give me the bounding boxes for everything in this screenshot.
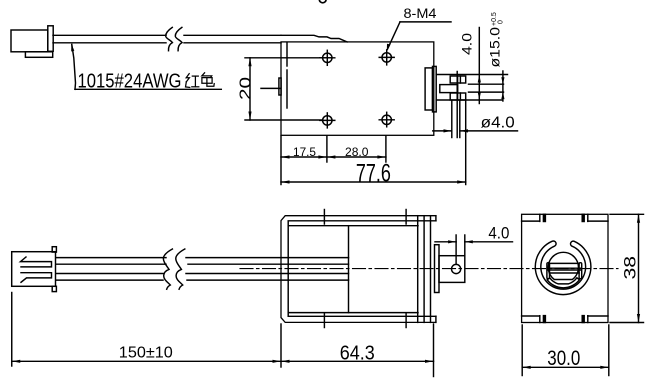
body centre tick: [261, 87, 280, 89]
wires (side view, right of break): [186, 258, 349, 281]
frame top plate right end: [435, 216, 437, 221]
dim 150±10 / 64.3: [12, 293, 434, 377]
svg-text:64.3: 64.3: [340, 343, 375, 365]
clevis upper prong: [450, 76, 466, 83]
hole H3 (bottom-left): [320, 113, 335, 128]
dim 4.0 (side view): [435, 224, 513, 264]
svg-text:17.5: 17.5: [293, 145, 316, 159]
inner circle with flat bottom (plunger face): [548, 252, 578, 279]
svg-text:1015#24AWG: 1015#24AWG: [78, 71, 182, 93]
slot extension lines right: [469, 84, 504, 92]
connector latch lower: [21, 273, 52, 283]
svg-text:77.6: 77.6: [356, 160, 391, 188]
dim 77.6: [281, 101, 466, 188]
dim 17.5 / 28.0: [281, 136, 386, 162]
svg-text:8-M4: 8-M4: [404, 5, 437, 21]
bobbin lines: [289, 216, 431, 323]
label 1015#24AWG red: [71, 44, 221, 93]
svg-text:20: 20: [238, 77, 255, 100]
dim 38: [610, 214, 644, 322]
plunger block (side view): [439, 256, 465, 283]
hole H1 (top-left): [320, 50, 335, 65]
bottom edge rabbet lines and notches: [522, 316, 608, 323]
slot end bar left: [547, 263, 550, 279]
connector (side view): [12, 247, 57, 292]
flange (side view): [435, 245, 440, 293]
wire (top view, right of break): [184, 35, 281, 43]
C-ring outlined: [535, 241, 591, 295]
slot end bar right: [579, 263, 582, 279]
dim 30.0: [522, 325, 609, 376]
body inner-left line: [286, 43, 288, 109]
end view square: [522, 214, 608, 322]
label 8-M4: [387, 5, 451, 52]
plunger clevis shaft bottom line: [436, 99, 502, 101]
slot lines: [548, 263, 580, 273]
svg-text:28.0: 28.0: [345, 145, 369, 159]
break squiggle 1 (side view): [163, 249, 172, 289]
dim 20: [238, 58, 332, 120]
centreline ticks on frame: [324, 210, 406, 328]
centreline (side + end view): [240, 268, 618, 270]
frame inner top line: [288, 221, 436, 316]
connector latch upper: [21, 257, 52, 267]
wire over body stepping down: [281, 35, 347, 42]
clevis lower prong: [450, 93, 466, 100]
break squiggle 2 (side view): [176, 249, 185, 289]
dim 4.0 (top view, vertical): [459, 28, 481, 104]
hole H2 (top-right): [379, 50, 394, 65]
svg-text:4.0: 4.0: [459, 33, 475, 55]
top edge rabbet lines and notches: [522, 214, 608, 221]
wires (side view, left of break): [56, 258, 166, 281]
hole H4 (bottom-right): [379, 112, 394, 127]
dim ø4.0 (top view): [433, 72, 518, 138]
flange plate wide (top view): [425, 68, 432, 110]
svg-text:0: 0: [498, 20, 505, 24]
wire (top view, left of break): [53, 35, 166, 43]
frame bottom plate right end: [435, 316, 437, 322]
watermark circle top right: [319, 0, 326, 3]
svg-text:38: 38: [621, 256, 640, 280]
bottom strip band: [547, 278, 579, 288]
frame outer contour (side view): [281, 216, 436, 323]
svg-text:4.0: 4.0: [488, 224, 509, 243]
break squiggle 1 (top view): [166, 27, 173, 50]
hand-drawn CJK: 红: [186, 74, 199, 88]
svg-text:30.0: 30.0: [547, 347, 580, 370]
plunger clevis shaft top line: [436, 74, 507, 76]
plunger hole: [452, 264, 461, 273]
clevis middle tongue: [440, 85, 458, 93]
solenoid body (top view): [281, 42, 434, 135]
dim ø15.0 +0.5/0 (top view, vertical): [487, 12, 505, 101]
connector (top view): [11, 26, 53, 58]
svg-text:ø15.0: ø15.0: [487, 27, 503, 68]
break squiggle 2 (top view): [175, 27, 182, 50]
wire grommet bump on left edge: [279, 78, 281, 95]
svg-text:150±10: 150±10: [119, 345, 173, 362]
hand-drawn CJK: 色: [202, 73, 214, 86]
svg-text:ø4.0: ø4.0: [481, 114, 515, 131]
flange plate narrow (top view): [433, 66, 437, 112]
